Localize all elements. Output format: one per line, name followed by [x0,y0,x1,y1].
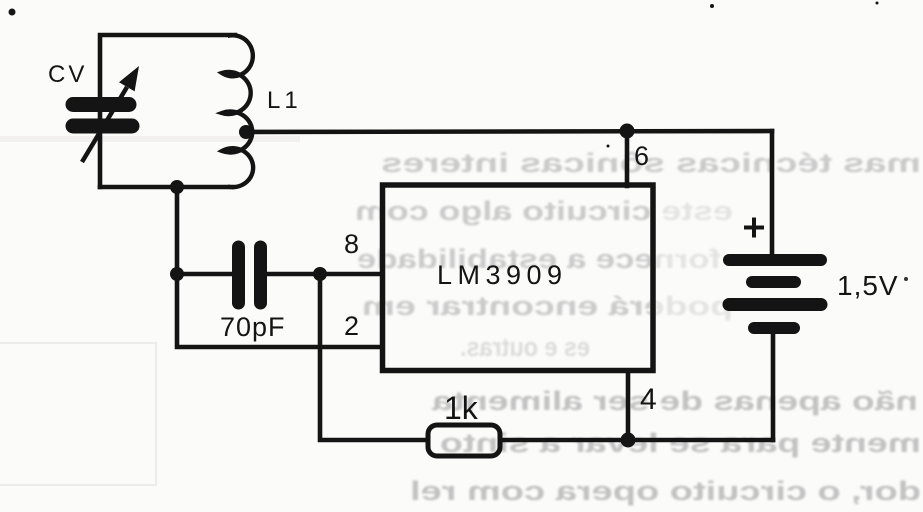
svg-text:2: 2 [344,311,359,341]
svg-text:dor, o circuito opera com rel: dor, o circuito opera com rel [410,476,921,506]
svg-text:mente para se levar a sinto: mente para se levar a sinto [440,428,921,458]
svg-text:4: 4 [640,383,657,416]
svg-text:1,5V: 1,5V [837,270,899,301]
svg-text:6: 6 [634,141,649,171]
svg-text:70pF: 70pF [220,312,286,342]
svg-text:CV: CV [48,61,87,88]
svg-text:LM3909: LM3909 [437,260,568,290]
svg-text:8: 8 [344,229,359,259]
svg-text:1k: 1k [444,390,479,426]
svg-text:não apenas de ser alimenta: não apenas de ser alimenta [431,386,918,416]
svg-text:mas técnicas sônicas interes: mas técnicas sônicas interes [381,148,921,178]
svg-text:L1: L1 [267,87,302,114]
